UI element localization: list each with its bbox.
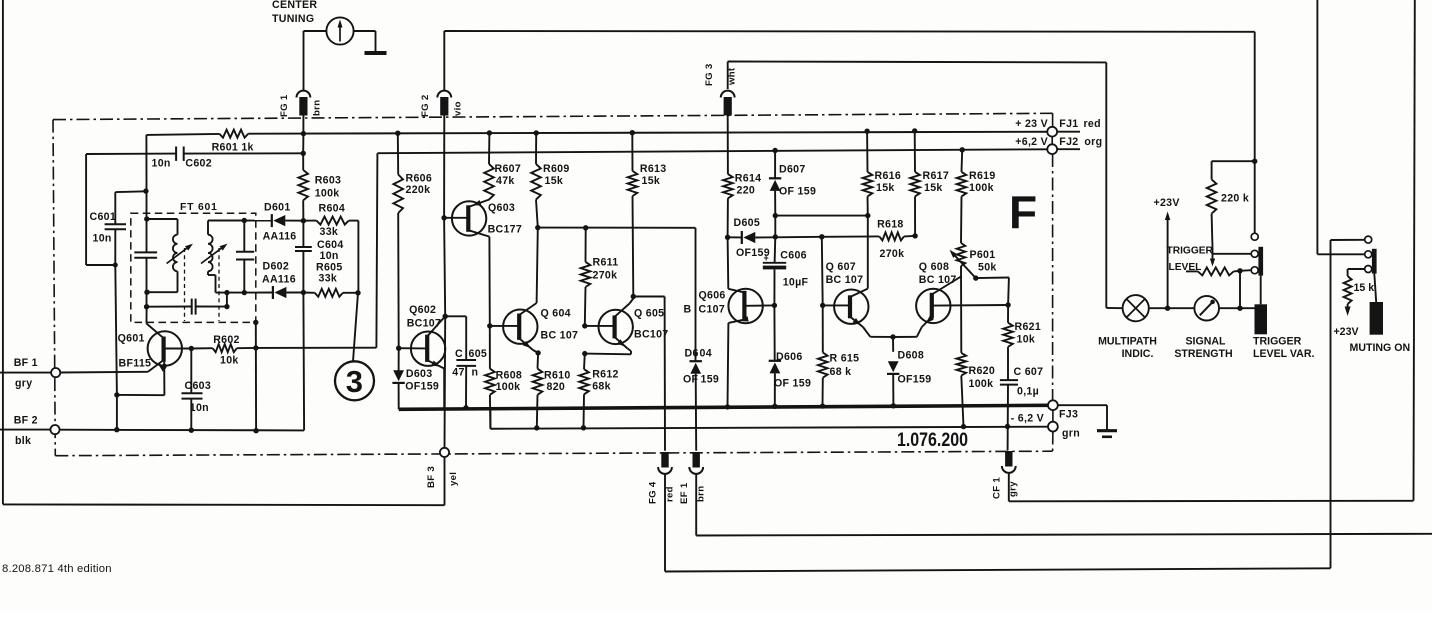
svg-text:SIGNAL: SIGNAL — [1185, 336, 1226, 348]
svg-text:10n: 10n — [93, 233, 112, 245]
svg-text:1.076.200: 1.076.200 — [897, 430, 968, 451]
svg-text:BF115: BF115 — [119, 358, 152, 370]
svg-text:04: 04 — [700, 348, 712, 360]
svg-text:blk: blk — [15, 435, 31, 447]
svg-text:BF 1: BF 1 — [14, 357, 38, 369]
svg-text:red: red — [665, 486, 676, 502]
svg-text:BC177: BC177 — [488, 224, 522, 236]
svg-text:R608: R608 — [496, 370, 523, 382]
svg-text:D602: D602 — [263, 261, 290, 273]
svg-text:FJ1: FJ1 — [1059, 118, 1078, 130]
svg-text:R605: R605 — [316, 262, 343, 274]
svg-text:LEVEL: LEVEL — [1169, 262, 1202, 273]
svg-text:10n: 10n — [320, 250, 339, 262]
svg-text:605: 605 — [469, 348, 488, 360]
svg-text:wht: wht — [727, 67, 738, 86]
svg-text:FG 3: FG 3 — [704, 63, 715, 86]
svg-text:FJ3: FJ3 — [1059, 409, 1078, 421]
svg-text:D605: D605 — [734, 217, 761, 229]
svg-text:10µF: 10µF — [783, 277, 809, 289]
svg-text:Q 607: Q 607 — [826, 261, 856, 273]
svg-text:MUTING ON: MUTING ON — [1350, 342, 1411, 354]
svg-text:R614: R614 — [735, 173, 762, 185]
svg-text:820: 820 — [547, 381, 566, 393]
svg-text:47: 47 — [452, 367, 464, 379]
svg-text:BF 2: BF 2 — [14, 415, 38, 427]
svg-text:C603: C603 — [185, 380, 212, 392]
svg-text:C602: C602 — [185, 158, 212, 170]
svg-text:R606: R606 — [406, 173, 433, 185]
svg-text:F: F — [1009, 186, 1037, 238]
svg-text:FG 1: FG 1 — [279, 94, 290, 117]
svg-text:159: 159 — [701, 374, 720, 386]
svg-text:D606: D606 — [776, 351, 803, 363]
svg-text:R612: R612 — [592, 369, 619, 381]
svg-text:33k: 33k — [319, 273, 338, 285]
svg-text:Q 608: Q 608 — [919, 261, 949, 273]
svg-text:R602: R602 — [213, 334, 240, 346]
svg-text:EF 1: EF 1 — [679, 482, 690, 504]
svg-text:n: n — [472, 367, 479, 379]
svg-text:R601 1k: R601 1k — [212, 141, 254, 153]
svg-text:INDIC.: INDIC. — [1122, 348, 1154, 360]
svg-text:BC 107: BC 107 — [826, 274, 864, 286]
svg-text:+: + — [764, 253, 770, 263]
svg-text:gry: gry — [15, 378, 32, 390]
svg-text:100k: 100k — [496, 381, 521, 393]
svg-text:TRIGGER: TRIGGER — [1253, 336, 1302, 348]
svg-text:C606: C606 — [780, 250, 807, 262]
svg-text:FG 2: FG 2 — [420, 94, 431, 117]
svg-text:red: red — [1084, 118, 1101, 130]
svg-text:D601: D601 — [264, 202, 291, 214]
svg-text:C: C — [455, 348, 463, 360]
svg-text:OF: OF — [683, 374, 699, 386]
svg-text:68 k: 68 k — [830, 366, 852, 378]
svg-text:R603: R603 — [315, 174, 342, 186]
svg-text:Q 605: Q 605 — [634, 308, 664, 320]
svg-text:OF159: OF159 — [405, 381, 439, 393]
svg-text:220 k: 220 k — [1221, 193, 1249, 205]
svg-text:vio: vio — [453, 101, 464, 116]
svg-text:yel: yel — [448, 472, 459, 486]
svg-text:BC 107: BC 107 — [541, 330, 579, 342]
svg-text:grn: grn — [1062, 428, 1080, 440]
svg-text:CENTER: CENTER — [272, 0, 317, 11]
svg-text:10k: 10k — [1017, 334, 1036, 346]
svg-text:FT 601: FT 601 — [180, 202, 218, 213]
svg-text:3: 3 — [346, 364, 364, 399]
svg-text:R613: R613 — [640, 163, 667, 175]
svg-text:R621: R621 — [1015, 321, 1042, 333]
svg-text:15k: 15k — [642, 175, 661, 187]
svg-text:D603: D603 — [406, 368, 433, 380]
svg-text:0,1µ: 0,1µ — [1017, 386, 1039, 398]
svg-text:10n: 10n — [152, 158, 171, 170]
svg-text:+23V: +23V — [1154, 197, 1180, 209]
svg-text:- 6,2 V: - 6,2 V — [1011, 413, 1044, 425]
svg-text:15k: 15k — [924, 182, 943, 194]
svg-text:R 615: R 615 — [830, 353, 860, 365]
svg-text:OF 159: OF 159 — [779, 186, 816, 198]
svg-text:R619: R619 — [969, 170, 996, 182]
svg-text:100k: 100k — [969, 378, 994, 390]
svg-text:LEVEL VAR.: LEVEL VAR. — [1253, 348, 1314, 360]
svg-text:B: B — [684, 304, 692, 316]
svg-text:OF159: OF159 — [898, 374, 932, 386]
svg-text:P601: P601 — [970, 249, 996, 261]
svg-text:Q601: Q601 — [118, 333, 145, 345]
svg-text:C 607: C 607 — [1014, 366, 1044, 378]
svg-text:AA116: AA116 — [263, 231, 297, 243]
svg-text:R620: R620 — [969, 365, 996, 377]
svg-text:Q606: Q606 — [699, 290, 726, 302]
svg-text:Q602: Q602 — [409, 304, 436, 316]
svg-text:brn: brn — [312, 100, 323, 116]
svg-text:BC 107: BC 107 — [919, 274, 957, 286]
svg-text:Q 604: Q 604 — [541, 308, 571, 320]
svg-text:R617: R617 — [923, 170, 950, 182]
svg-text:47k: 47k — [496, 175, 515, 187]
svg-text:TRIGGER: TRIGGER — [1167, 246, 1214, 257]
svg-text:CF 1: CF 1 — [992, 477, 1003, 499]
svg-text:C107: C107 — [699, 304, 726, 316]
svg-text:C601: C601 — [90, 211, 117, 223]
svg-text:MULTIPATH: MULTIPATH — [1098, 336, 1157, 348]
svg-text:BC107: BC107 — [407, 318, 441, 330]
svg-text:68k: 68k — [592, 381, 611, 393]
svg-text:R618: R618 — [877, 219, 904, 231]
svg-text:15k: 15k — [876, 182, 895, 194]
svg-text:270k: 270k — [593, 270, 618, 282]
svg-text:org: org — [1084, 136, 1102, 148]
svg-text:D607: D607 — [779, 164, 806, 176]
svg-text:STRENGTH: STRENGTH — [1174, 348, 1232, 360]
svg-text:D608: D608 — [898, 350, 925, 362]
svg-text:+6,2 V: +6,2 V — [1015, 136, 1048, 148]
svg-text:R616: R616 — [875, 170, 902, 182]
svg-text:+23V: +23V — [1334, 326, 1359, 338]
svg-text:+ 23 V: + 23 V — [1015, 118, 1048, 130]
svg-text:15 k: 15 k — [1354, 282, 1375, 294]
svg-text:R607: R607 — [495, 163, 522, 175]
svg-text:FG 4: FG 4 — [648, 481, 659, 504]
svg-text:TUNING: TUNING — [272, 13, 314, 25]
svg-text:100k: 100k — [969, 182, 994, 194]
svg-text:10n: 10n — [190, 402, 209, 414]
svg-text:Q603: Q603 — [488, 202, 515, 214]
svg-text:AA116: AA116 — [262, 273, 296, 285]
svg-text:270k: 270k — [880, 248, 905, 260]
svg-text:220k: 220k — [406, 184, 431, 196]
svg-text:D6: D6 — [685, 348, 699, 360]
svg-text:R610: R610 — [544, 370, 571, 382]
svg-text:220: 220 — [737, 185, 756, 197]
svg-text:BF 3: BF 3 — [426, 466, 437, 488]
svg-text:100k: 100k — [315, 187, 340, 199]
svg-text:R609: R609 — [543, 163, 570, 175]
svg-text:8.208.871 4th edition: 8.208.871 4th edition — [2, 563, 112, 575]
svg-text:OF 159: OF 159 — [774, 378, 811, 390]
svg-text:33k: 33k — [320, 226, 339, 238]
svg-text:BC107: BC107 — [634, 329, 668, 341]
svg-text:10k: 10k — [220, 355, 239, 367]
svg-text:R604: R604 — [319, 202, 346, 214]
svg-text:50k: 50k — [978, 262, 997, 274]
svg-text:FJ2: FJ2 — [1059, 136, 1078, 148]
svg-text:15k: 15k — [545, 175, 564, 187]
svg-text:R611: R611 — [593, 257, 619, 269]
